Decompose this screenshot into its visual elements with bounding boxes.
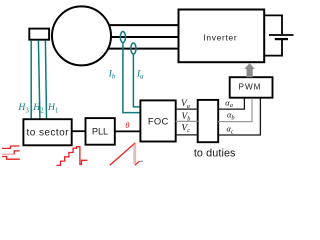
waveform hall trace 3 (red steps) [2,157,20,160]
wire alpha_c duties to PWM [218,98,260,135]
waveform theta ramp (red sawtooth) [110,143,135,165]
waveform hall trace 2 (pink steps) [2,153,14,155]
to sector box [23,119,71,145]
wire hall H1 [45,40,46,118]
PLL box [86,118,115,145]
waveform sector staircase (red) [56,147,87,166]
waveform ramp gray stub [139,160,143,162]
current sensor ellipse Ia [131,43,136,54]
wire phase B (middle) motor to inverter [104,36,179,38]
battery bottom wire [264,40,282,56]
waveform hall trace 1 (red steps, bottom-left) [2,146,20,148]
wire alpha_a duties to PWM [218,98,244,109]
inverter box U1 [179,10,265,63]
svg-text:to sector: to sector [26,127,69,138]
hall sensor block on motor [29,29,49,40]
wire sector to PLL [72,130,86,132]
svg-text:FOC: FOC [148,115,169,126]
wire hall H3 [30,40,32,118]
to duties box [198,100,219,142]
battery short plate [275,38,288,40]
svg-text:to duties: to duties [194,147,236,159]
wire Ia to FOC [133,54,139,107]
waveform ramp restart [135,161,140,165]
waveform ramp drop (pale) [133,145,135,165]
wire Ib to FOC [123,43,140,113]
wire phase A (top) motor to inverter [104,24,179,26]
wire phase C (bottom) motor to inverter [104,48,179,50]
gray arrow PWM to inverter [244,63,255,77]
wire Vb FOC to duties [176,120,198,122]
wire Va FOC to duties [176,108,198,110]
motor M1 (circle) [52,6,111,65]
svg-text:PWM: PWM [238,82,261,91]
current sensor ellipse Ib [120,32,125,43]
wire Vc FOC to duties [176,134,198,136]
FOC box [140,100,175,141]
svg-text:Inverter: Inverter [203,33,237,43]
battery long plate [269,34,294,36]
wire alpha_b duties to PWM [218,98,252,121]
wire hall H2 [38,40,40,118]
battery V1 wires [264,15,282,34]
wire PLL to FOC [115,130,141,132]
svg-text:PLL: PLL [92,127,108,137]
PWM box [230,77,273,98]
